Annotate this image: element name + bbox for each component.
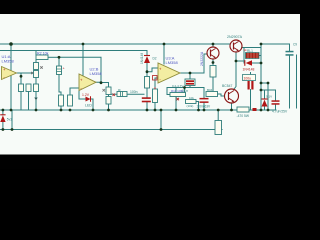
- svg-text:100u: 100u: [244, 76, 252, 80]
- capacitor C4 (red bars under U3 output): [181, 79, 195, 93]
- capacitor C2 (horizontal polarized): [117, 90, 138, 97]
- resistor R7a (below D2): [145, 77, 150, 89]
- wire x12 rail link: [11, 110, 13, 130]
- wire C8 lower vertical: [289, 56, 291, 108]
- wire Q1 collector: [212, 44, 214, 47]
- capacitor C5 (red plates near Q3): [197, 98, 212, 109]
- relay RL1: [246, 49, 260, 59]
- red marker square near U3 input: [153, 76, 158, 81]
- transistor Q1: [200, 47, 219, 66]
- wire output stack x102: [108, 83, 110, 111]
- wire bottom rail B: [0, 129, 222, 131]
- svg-text:100n: 100n: [130, 90, 138, 94]
- resistor RA (horizontal, mid-bottom): [170, 89, 186, 97]
- capacitor C3 (red plates): [142, 97, 151, 102]
- svg-text:LM358: LM358: [166, 60, 179, 65]
- wire Q3 emitter: [231, 103, 233, 110]
- svg-text:4.7uF/25V: 4.7uF/25V: [272, 110, 288, 114]
- wire U1 output: [17, 73, 35, 84]
- resistor R4 (below C1): [59, 95, 64, 106]
- svg-text:10k: 10k: [189, 96, 194, 100]
- wire C4 branch under U3 output: [176, 73, 190, 110]
- capacitor C6 (red electrolytic): [243, 75, 256, 90]
- red mark on rail A: [253, 108, 257, 111]
- svg-text:LED: LED: [85, 104, 92, 108]
- transistor Q3: [222, 84, 239, 103]
- red X mark mid-bottom: [177, 98, 180, 101]
- svg-text:1N4148: 1N4148: [243, 68, 255, 72]
- red X mark right of stack: [113, 94, 116, 97]
- wire branch x268: [261, 83, 268, 110]
- wire U2 feedback loop: [59, 57, 101, 82]
- no-connect X right of stack: [40, 66, 42, 68]
- wire R8 to Q3 base: [218, 94, 225, 96]
- resistor R9 (stack B x155): [153, 87, 158, 102]
- svg-text:-470 5W: -470 5W: [237, 114, 250, 118]
- wire top rail: [0, 43, 230, 45]
- resistor R12 (lower-left 3): [34, 84, 39, 92]
- svg-text:R11 100k: R11 100k: [171, 89, 184, 93]
- resistor R10 (lower-left 1): [19, 84, 24, 92]
- wire elec cap C6 stubs: [250, 73, 252, 111]
- no-connect X at U1 output: [31, 72, 33, 74]
- resistor R6b (stack under U2 output): [106, 97, 111, 105]
- wire Q1 emitter chain: [212, 59, 214, 92]
- wire left zener column: [2, 110, 4, 130]
- resistor R13 (Q1 emitter): [210, 66, 216, 78]
- wire U2 output: [96, 81, 109, 83]
- op-amp U1: [2, 54, 17, 80]
- capacitor C8 (top right): [286, 43, 298, 56]
- resistor R5 (x70): [68, 95, 73, 106]
- capacitor C7 (red plates right): [272, 100, 289, 113]
- wire zener-cap branch: [261, 90, 276, 110]
- wire cap chain C2: [111, 93, 144, 95]
- svg-text:2N2907A: 2N2907A: [227, 35, 243, 39]
- wire far right vertical: [296, 55, 298, 108]
- op-amp U3: [158, 56, 180, 84]
- wire U2 power vertical: [82, 44, 84, 75]
- resistor R6a (stack under U2 output): [106, 87, 111, 95]
- wire R2-R3 stack links: [35, 60, 37, 85]
- wire bottom rail A: [0, 109, 276, 111]
- svg-text:RL1: RL1: [247, 49, 253, 53]
- wire lower resistors to rail: [21, 92, 36, 111]
- svg-text:LM358: LM358: [90, 71, 103, 76]
- resistor R2 (stack upper): [34, 63, 39, 70]
- resistor R11 (lower-left 2): [26, 84, 31, 92]
- wire U3 output: [180, 54, 207, 73]
- svg-text:5v1: 5v1: [7, 118, 12, 122]
- wire second rail: [0, 50, 147, 52]
- wire x161 rail link: [160, 110, 162, 130]
- transistor Q2: [227, 35, 247, 52]
- op-amp U2: [79, 67, 103, 91]
- wire node D to U3 plus input: [147, 68, 158, 72]
- svg-text:1.2V: 1.2V: [82, 93, 90, 97]
- wire node A to C1 and down to R4: [59, 57, 61, 110]
- svg-text:R2 10k: R2 10k: [37, 52, 49, 56]
- svg-text:C9: C9: [293, 43, 297, 47]
- wire relay-diode left vertical: [243, 48, 245, 64]
- wire stack B to U3 minus input: [155, 78, 158, 110]
- wire Q2 collector down to Q3: [234, 52, 236, 89]
- buzzer LS1 (bottom mid-right): [215, 121, 222, 135]
- diode D6 (flyback, red): [243, 60, 255, 71]
- svg-text:2N2222A: 2N2222A: [200, 51, 204, 66]
- no-connect X left of stack: [103, 89, 106, 92]
- wire LED loop: [79, 91, 93, 111]
- wire buzzer link: [217, 110, 219, 121]
- wire node E vertical x261: [260, 44, 262, 110]
- resistor R8 (horizontal to Q3 base): [206, 88, 218, 97]
- capacitor C1 (node A): [57, 66, 66, 75]
- svg-text:0.2-4.7V: 0.2-4.7V: [172, 84, 183, 88]
- svg-text:D2: D2: [153, 57, 157, 61]
- svg-text:LM358: LM358: [2, 59, 15, 64]
- diode D2 (red, column x148): [140, 53, 157, 64]
- wire C5 to rail: [167, 88, 204, 111]
- svg-text:1N4148: 1N4148: [140, 53, 144, 64]
- svg-text:B04: B04: [207, 88, 213, 92]
- schematic canvas: [0, 14, 300, 155]
- resistor R3 (stack lower): [34, 71, 39, 78]
- resistor RB (horizontal, mid-bottom 2): [186, 96, 197, 108]
- resistor R1 (horizontal, top left): [36, 52, 49, 60]
- wire Q2 branch to diode anode: [236, 60, 244, 62]
- svg-text:5.1V: 5.1V: [266, 94, 272, 98]
- wire Q2 emitter to node E: [242, 47, 261, 49]
- wire relay right link: [259, 55, 261, 57]
- zener D1 (bottom left): [0, 115, 12, 122]
- svg-text:(10k): (10k): [187, 104, 194, 108]
- wire diode column x148: [146, 51, 148, 111]
- wire R1 to node A: [48, 56, 59, 58]
- wire R5 to U2 inverting input: [70, 88, 79, 95]
- LED D3: [82, 93, 92, 108]
- wire diode right link: [252, 62, 261, 64]
- wire U1 power vertical: [10, 44, 12, 110]
- wire rail2 stub to R2: [35, 51, 37, 56]
- resistor R14 (series in rail A): [237, 107, 250, 118]
- zener D7 (right): [262, 94, 273, 106]
- svg-text:BC547: BC547: [222, 84, 232, 88]
- wire top right to C8: [261, 44, 290, 51]
- diode small below R12: [34, 98, 37, 101]
- letterbox background: [0, 0, 300, 169]
- svg-text:100n/63V: 100n/63V: [197, 105, 212, 109]
- wire U3 power vertical: [163, 44, 165, 64]
